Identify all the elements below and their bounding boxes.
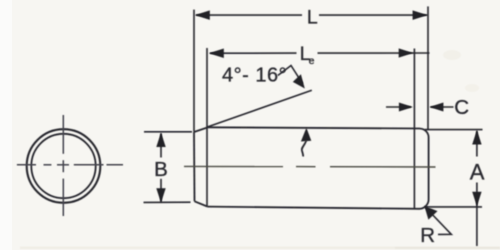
C dimension line right part — [431, 106, 454, 108]
L dimension line — [196, 14, 302, 16]
Le dimension right arrowhead — [399, 48, 414, 57]
pin crown tangent line + Le right extension line — [413, 49, 415, 209]
B dimension down arrowhead — [156, 188, 165, 203]
pin bottom chamfer edge — [195, 201, 208, 206]
pin right face with corner radii — [419, 129, 428, 209]
pin bottom edge — [207, 207, 419, 209]
B dimension top extension line — [144, 131, 192, 133]
end view horizontal centerline — [17, 164, 123, 166]
svg-text:e: e — [309, 55, 315, 67]
A dimension line — [476, 131, 478, 157]
end view inner circle (chamfer) — [31, 134, 95, 198]
leader zigzag from angle text — [278, 66, 303, 84]
A dimension up arrowhead — [472, 130, 481, 145]
pin centerline — [184, 165, 436, 168]
pin chamfer shoulder line + Le left extension line — [206, 48, 208, 207]
C dimension right-pointing arrowhead — [399, 103, 413, 112]
A dimension bottom extension line — [425, 206, 482, 208]
A dimension top extension line — [425, 129, 483, 131]
end view outer circle — [27, 129, 101, 203]
L dimension left extension line — [193, 10, 195, 132]
svg-text:A: A — [470, 160, 485, 185]
surface squiggle leader tail — [302, 141, 307, 157]
Le dimension line — [210, 52, 297, 54]
R leader line — [426, 208, 452, 235]
L dimension right arrowhead — [413, 10, 428, 20]
pin top chamfer edge — [194, 128, 207, 132]
svg-text:4°- 16°: 4°- 16° — [222, 65, 287, 87]
faint scan smudges — [20, 50, 500, 249]
B dimension line — [160, 134, 162, 158]
B dimension up arrowhead — [156, 132, 165, 147]
A dimension down arrowhead — [472, 192, 481, 207]
R leader arrowhead — [424, 206, 437, 220]
surface leader up arrowhead — [301, 128, 311, 142]
angle leader arrowhead — [293, 74, 305, 88]
Le dimension left arrowhead — [209, 49, 224, 59]
svg-text:L: L — [307, 7, 318, 29]
C dimension left-pointing arrowhead — [429, 103, 443, 112]
svg-text:R: R — [420, 224, 435, 247]
L dimension left arrowhead — [195, 10, 210, 20]
chamfer angle illustration line — [207, 90, 311, 127]
B dimension bottom extension line — [144, 201, 191, 203]
L dimension right extension line — [427, 6, 429, 130]
svg-text:B: B — [154, 158, 168, 181]
C dimension line left part — [386, 106, 411, 108]
pin top edge — [207, 127, 420, 128]
end view vertical centerline — [62, 115, 64, 216]
svg-text:C: C — [454, 96, 469, 119]
pin left end face — [193, 132, 196, 201]
